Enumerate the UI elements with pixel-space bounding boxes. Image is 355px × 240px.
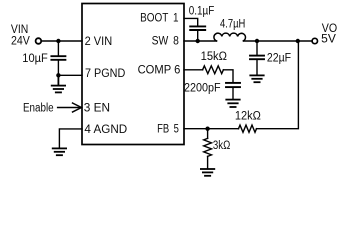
svg-text:4.7µH: 4.7µH — [220, 18, 245, 30]
svg-text:SW 8: SW 8 — [152, 36, 179, 48]
node feedback tap junction — [296, 39, 300, 43]
svg-text:Enable: Enable — [23, 102, 54, 114]
svg-text:COMP 6: COMP 6 — [138, 64, 181, 76]
svg-text:3 EN: 3 EN — [84, 103, 110, 115]
capacitor C-comp 2200pF — [226, 83, 240, 87]
svg-text:VIN: VIN — [11, 24, 28, 36]
wire R-bottom to ground — [207, 156, 209, 168]
node input junction — [56, 39, 60, 43]
node FB junction — [205, 127, 209, 131]
wire VIN terminal to pin 2 — [42, 40, 82, 42]
svg-text:BOOT 1: BOOT 1 — [140, 13, 179, 25]
wire C-boot bottom to SW node — [197, 31, 199, 41]
wire Enable arrow into pin 3 — [58, 107, 81, 109]
svg-text:FB 5: FB 5 — [157, 124, 179, 136]
inductor L1 4.7uH — [214, 33, 246, 41]
ground (R-bottom) — [201, 169, 214, 176]
svg-text:2 VIN: 2 VIN — [85, 36, 113, 48]
wire pin 5 FB to divider — [184, 128, 239, 130]
wire PGND junction to pin 7 — [58, 74, 82, 76]
op-amp U1 (regulator IC body) — [82, 4, 184, 145]
svg-text:15kΩ: 15kΩ — [201, 51, 228, 63]
resistor R-bottom 3k — [204, 138, 212, 156]
svg-text:7 PGND: 7 PGND — [85, 68, 125, 80]
ground (input) — [52, 75, 65, 92]
svg-text:3kΩ: 3kΩ — [213, 140, 231, 152]
ground (C-out) — [250, 75, 263, 82]
node SW junction — [196, 39, 200, 43]
resistor R-comp 15k — [203, 66, 224, 74]
ground (AGND) — [53, 148, 66, 155]
node VO terminal — [312, 38, 317, 43]
wire pin 6 COMP to R-comp — [184, 69, 203, 71]
wire pin 1 BOOT to C-boot — [184, 18, 198, 25]
wire C-comp bottom to ground — [232, 88, 234, 99]
wire FB junction down to R-bottom — [207, 129, 209, 139]
node C-out junction — [255, 39, 259, 43]
capacitor C-out 22uF — [250, 56, 264, 60]
wire R-top to feedback riser — [257, 41, 299, 129]
svg-text:12kΩ: 12kΩ — [235, 110, 261, 122]
svg-text:4 AGND: 4 AGND — [84, 124, 127, 136]
capacitor C-boot 0.1uF — [190, 26, 205, 30]
svg-text:22µF: 22µF — [267, 52, 291, 64]
wire C-out bottom to ground — [256, 60, 258, 75]
wire R-comp to C-comp — [223, 70, 233, 82]
node PGND junction — [56, 73, 60, 77]
wire inductor to VO terminal — [244, 40, 312, 42]
svg-text:24V: 24V — [11, 36, 30, 48]
wire pin 4 AGND to ground — [59, 129, 82, 148]
svg-text:0.1µF: 0.1µF — [189, 5, 215, 17]
node VIN terminal — [36, 38, 42, 44]
svg-text:10µF: 10µF — [22, 53, 48, 65]
wire pin 8 SW to inductor — [184, 40, 217, 42]
resistor R-top 12k — [239, 125, 257, 132]
ground (C-comp) — [226, 100, 239, 107]
wire junction down to C-in top — [57, 41, 59, 55]
svg-text:5V: 5V — [321, 34, 336, 46]
wire C-out junction down — [256, 41, 258, 55]
wire C-in bottom to PGND junction — [57, 61, 59, 76]
svg-text:2200pF: 2200pF — [184, 83, 221, 95]
capacitor C-in 10uF — [51, 56, 65, 60]
